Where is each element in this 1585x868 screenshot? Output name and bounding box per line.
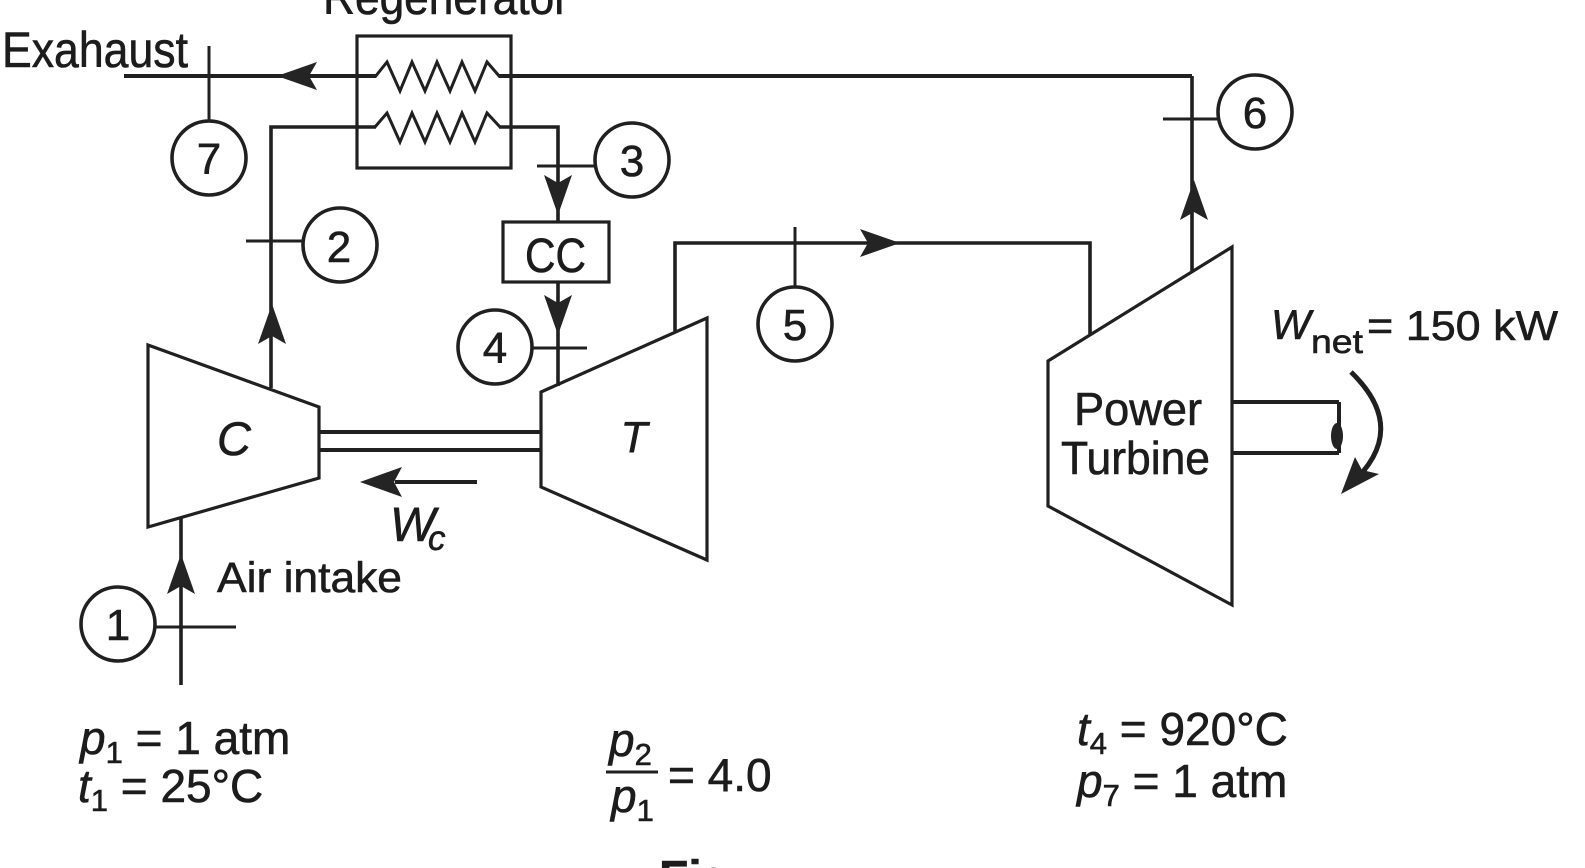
arrowhead on exhaust line (pointing left) bbox=[277, 62, 317, 90]
wire: air intake into compressor (node 1 line) bbox=[179, 517, 183, 685]
tick node 6 bbox=[1163, 118, 1219, 121]
turbine T body bbox=[541, 318, 707, 560]
tick node 5 bbox=[794, 227, 797, 288]
svg-text:= 150 kW: = 150 kW bbox=[1367, 302, 1558, 349]
rotation arrow (curved) bbox=[1350, 372, 1381, 485]
svg-text:2: 2 bbox=[327, 223, 351, 272]
svg-text:Air intake: Air intake bbox=[217, 554, 402, 602]
circle node 7 bbox=[172, 121, 246, 195]
tick node 4 bbox=[531, 347, 587, 350]
shaft between C and T bbox=[319, 430, 541, 434]
svg-text:W: W bbox=[1271, 301, 1314, 348]
arrowhead up on node-2 wire bbox=[258, 304, 286, 344]
arrowhead up on air intake bbox=[167, 554, 195, 594]
svg-text:C: C bbox=[217, 412, 252, 465]
power turbine body bbox=[1048, 247, 1232, 605]
tick node 1 bbox=[155, 626, 236, 629]
svg-text:T: T bbox=[621, 413, 651, 462]
svg-text:6: 6 bbox=[1243, 89, 1267, 138]
regenerator box bbox=[357, 36, 511, 168]
svg-text:Power: Power bbox=[1074, 383, 1202, 435]
svg-text:p1: p1 bbox=[609, 770, 654, 828]
output shaft end cap bbox=[1331, 423, 1343, 449]
circle node 2 bbox=[303, 208, 377, 282]
output shaft of power turbine bbox=[1232, 400, 1339, 404]
svg-text:c: c bbox=[428, 519, 446, 558]
regenerator cold-side coil (bottom zigzag) bbox=[375, 113, 500, 142]
fraction bar bbox=[606, 771, 658, 774]
svg-text:p2: p2 bbox=[607, 714, 652, 772]
Wc arrow (pointing left) bbox=[395, 480, 477, 484]
svg-text:p7 = 1 atm: p7 = 1 atm bbox=[1075, 755, 1287, 813]
circle node 1 bbox=[81, 587, 155, 661]
compressor C body bbox=[148, 345, 319, 527]
svg-text:t4 = 920°C: t4 = 920°C bbox=[1077, 703, 1288, 761]
wire: exhaust line left of regenerator bbox=[124, 74, 376, 78]
svg-text:= 4.0: = 4.0 bbox=[668, 749, 772, 801]
wire: regenerator to combustion chamber (node 3 line) bbox=[499, 127, 558, 222]
svg-text:7: 7 bbox=[197, 135, 221, 184]
arrowhead up on node-6 wire bbox=[1180, 180, 1208, 220]
svg-text:Regenerator: Regenerator bbox=[323, 0, 569, 25]
svg-text:3: 3 bbox=[620, 137, 644, 186]
wire: hot gas line from power turbine to regenerator bbox=[499, 74, 1192, 78]
svg-text:1: 1 bbox=[106, 601, 130, 650]
wire: turbine T outlet to power turbine (node 5 line) bbox=[675, 243, 1090, 334]
svg-text:Exahaust: Exahaust bbox=[2, 22, 188, 78]
circle node 3 bbox=[595, 123, 669, 197]
arrowhead right on node-5 wire bbox=[860, 229, 900, 257]
svg-text:net: net bbox=[1311, 323, 1363, 360]
wire: power turbine outlet up to node 6 bbox=[1190, 76, 1194, 271]
arrowhead down into CC bbox=[544, 175, 572, 215]
svg-text:Fig.: Fig. bbox=[659, 852, 744, 868]
svg-text:CC: CC bbox=[525, 230, 586, 283]
wire: compressor outlet to regenerator (node 2 line) bbox=[271, 127, 376, 388]
regenerator hot-side coil (top zigzag) bbox=[375, 62, 500, 91]
wire: CC to turbine T bbox=[556, 282, 560, 386]
tick node 3 bbox=[537, 165, 595, 168]
circle node 6 bbox=[1218, 75, 1292, 149]
tick node 7 bbox=[208, 46, 211, 122]
circle node 5 bbox=[758, 287, 832, 361]
svg-text:5: 5 bbox=[783, 301, 807, 350]
arrowhead down into T bbox=[544, 295, 572, 335]
svg-text:Turbine: Turbine bbox=[1061, 432, 1210, 484]
circle node 4 bbox=[458, 310, 532, 384]
combustion chamber CC box bbox=[503, 222, 609, 282]
tick node 2 bbox=[246, 240, 302, 243]
svg-text:4: 4 bbox=[483, 324, 507, 373]
